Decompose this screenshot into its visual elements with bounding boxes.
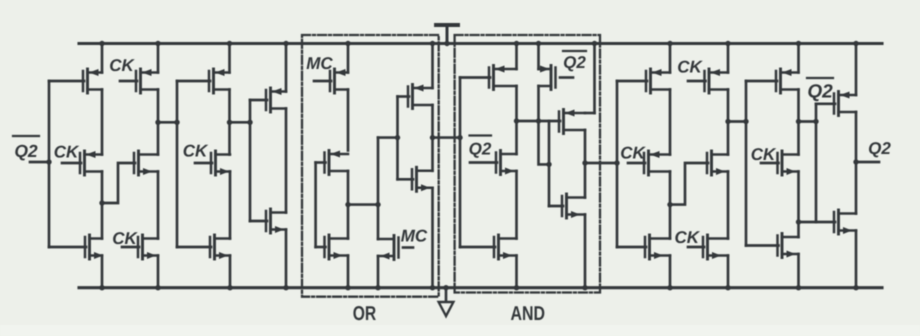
svg-text:Q2: Q2: [469, 140, 492, 159]
svg-text:Q2: Q2: [563, 53, 586, 72]
svg-text:CK: CK: [112, 229, 138, 248]
svg-text:CK: CK: [109, 56, 135, 75]
svg-text:AND: AND: [511, 303, 546, 325]
svg-text:CK: CK: [677, 58, 703, 77]
svg-text:CK: CK: [620, 144, 646, 163]
svg-text:CK: CK: [751, 145, 777, 164]
svg-text:Q2: Q2: [807, 82, 833, 103]
svg-text:CK: CK: [183, 142, 209, 161]
svg-text:MC: MC: [306, 54, 333, 73]
svg-text:MC: MC: [401, 227, 428, 246]
svg-text:CK: CK: [675, 228, 701, 247]
svg-text:OR: OR: [353, 303, 377, 325]
svg-text:Q2: Q2: [14, 141, 38, 161]
svg-text:Q2: Q2: [868, 139, 891, 158]
svg-text:CK: CK: [54, 143, 80, 162]
